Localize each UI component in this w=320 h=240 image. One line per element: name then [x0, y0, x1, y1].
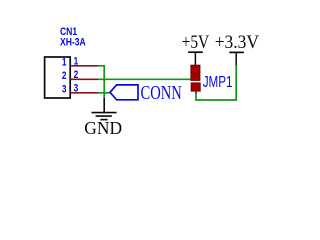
svg-text:1: 1	[62, 57, 67, 69]
wire pin1 to vertical	[98, 66, 104, 98]
ground bar 1	[92, 112, 117, 114]
svg-text:JMP1: JMP1	[203, 72, 233, 90]
wire pin3 to port	[98, 92, 110, 94]
pin 2 stub	[71, 78, 99, 80]
ground lead	[103, 98, 105, 112]
jumper JMP1 top pad	[191, 65, 200, 80]
power +5V lead	[194, 52, 196, 65]
power +5V bar	[188, 51, 203, 53]
svg-text:GND: GND	[84, 118, 122, 138]
svg-text:1: 1	[74, 55, 79, 67]
power +3.3V bar	[229, 51, 244, 53]
jumper JMP1 bottom pad	[191, 83, 200, 91]
svg-text:3: 3	[74, 82, 79, 94]
svg-text:XH-3A: XH-3A	[60, 36, 86, 48]
svg-text:+3.3V: +3.3V	[215, 31, 259, 52]
svg-text:3: 3	[62, 84, 67, 96]
pin 3 stub	[71, 92, 99, 94]
power +3.3V lead	[235, 52, 237, 65]
svg-text:+5V: +5V	[182, 31, 210, 52]
svg-text:CONN: CONN	[141, 80, 182, 103]
wire pin2 to JMP1	[98, 78, 191, 80]
wire JMP1 to +3.3V	[196, 65, 236, 100]
port CONN shape	[110, 85, 138, 100]
pin 1 stub	[71, 65, 99, 67]
svg-text:2: 2	[74, 69, 79, 81]
svg-text:2: 2	[62, 70, 67, 82]
jumper JMP1 bottom pin stub	[195, 91, 197, 94]
ground bar 3	[100, 119, 107, 121]
ground bar 2	[96, 115, 112, 117]
connector CN1 body	[45, 57, 71, 98]
